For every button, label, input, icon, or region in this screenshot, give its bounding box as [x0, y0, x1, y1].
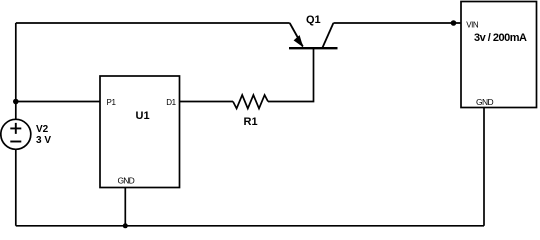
junction node at V2 top [13, 99, 19, 105]
svg-text:P1: P1 [107, 98, 117, 107]
svg-text:D1: D1 [166, 98, 176, 107]
svg-text:3v / 200mA: 3v / 200mA [474, 32, 527, 44]
resistor R1 [233, 95, 268, 109]
wire U1 gnd lead [124, 188, 126, 226]
svg-text:GND: GND [118, 176, 135, 186]
wire D1 to resistor [180, 101, 234, 103]
svg-text:R1: R1 [244, 116, 258, 128]
wire left vertical lower [15, 149, 17, 226]
wire bottom rail [16, 225, 484, 227]
op-amp block U1 [100, 76, 180, 188]
transistor Q1 emitter arrowhead [294, 35, 304, 47]
svg-text:U1: U1 [136, 110, 150, 122]
svg-text:GND: GND [476, 97, 494, 107]
wire top rail [16, 22, 290, 24]
junction node at bottom rail [123, 223, 128, 228]
V2 plus symbol [10, 123, 21, 134]
wire top right rail [333, 22, 461, 24]
wire right gnd vertical [483, 108, 485, 226]
transistor Q1 emitter diagonal [290, 23, 303, 47]
svg-text:3 V: 3 V [36, 135, 51, 146]
wire left vertical upper [15, 23, 17, 119]
load block rect [461, 2, 537, 108]
svg-text:Q1: Q1 [306, 14, 321, 26]
voltage source V2 [1, 119, 31, 149]
svg-text:VIN: VIN [466, 20, 479, 29]
transistor Q1 base bar [289, 47, 338, 49]
V2 minus symbol [10, 141, 21, 143]
transistor Q1 collector diagonal [322, 23, 333, 48]
junction node at VIN [451, 20, 457, 26]
wire resistor to base [268, 48, 314, 101]
svg-text:V2: V2 [36, 124, 49, 135]
wire node to P1 [16, 101, 100, 103]
